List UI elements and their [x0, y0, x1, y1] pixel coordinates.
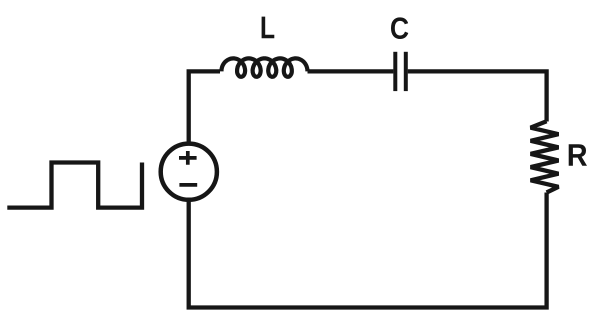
- label L: [262, 17, 275, 39]
- voltage source minus sign: [179, 183, 197, 187]
- voltage source plus sign: [179, 151, 197, 165]
- wire top-left corner: source to inductor: [189, 71, 220, 144]
- voltage source circle: [161, 144, 217, 200]
- label C: [391, 17, 408, 39]
- square-wave input signal: [7, 163, 142, 208]
- inductor L: [222, 58, 308, 76]
- capacitor C right plate: [404, 52, 408, 91]
- wire: capacitor to top-right corner down to resistor: [408, 71, 547, 121]
- wire: inductor to capacitor: [308, 69, 394, 73]
- wire: resistor to bottom-right corner, bottom wire, up to source bottom: [189, 193, 547, 308]
- capacitor C left plate: [393, 52, 397, 91]
- label R: [569, 144, 587, 165]
- resistor R zigzag: [531, 121, 559, 192]
